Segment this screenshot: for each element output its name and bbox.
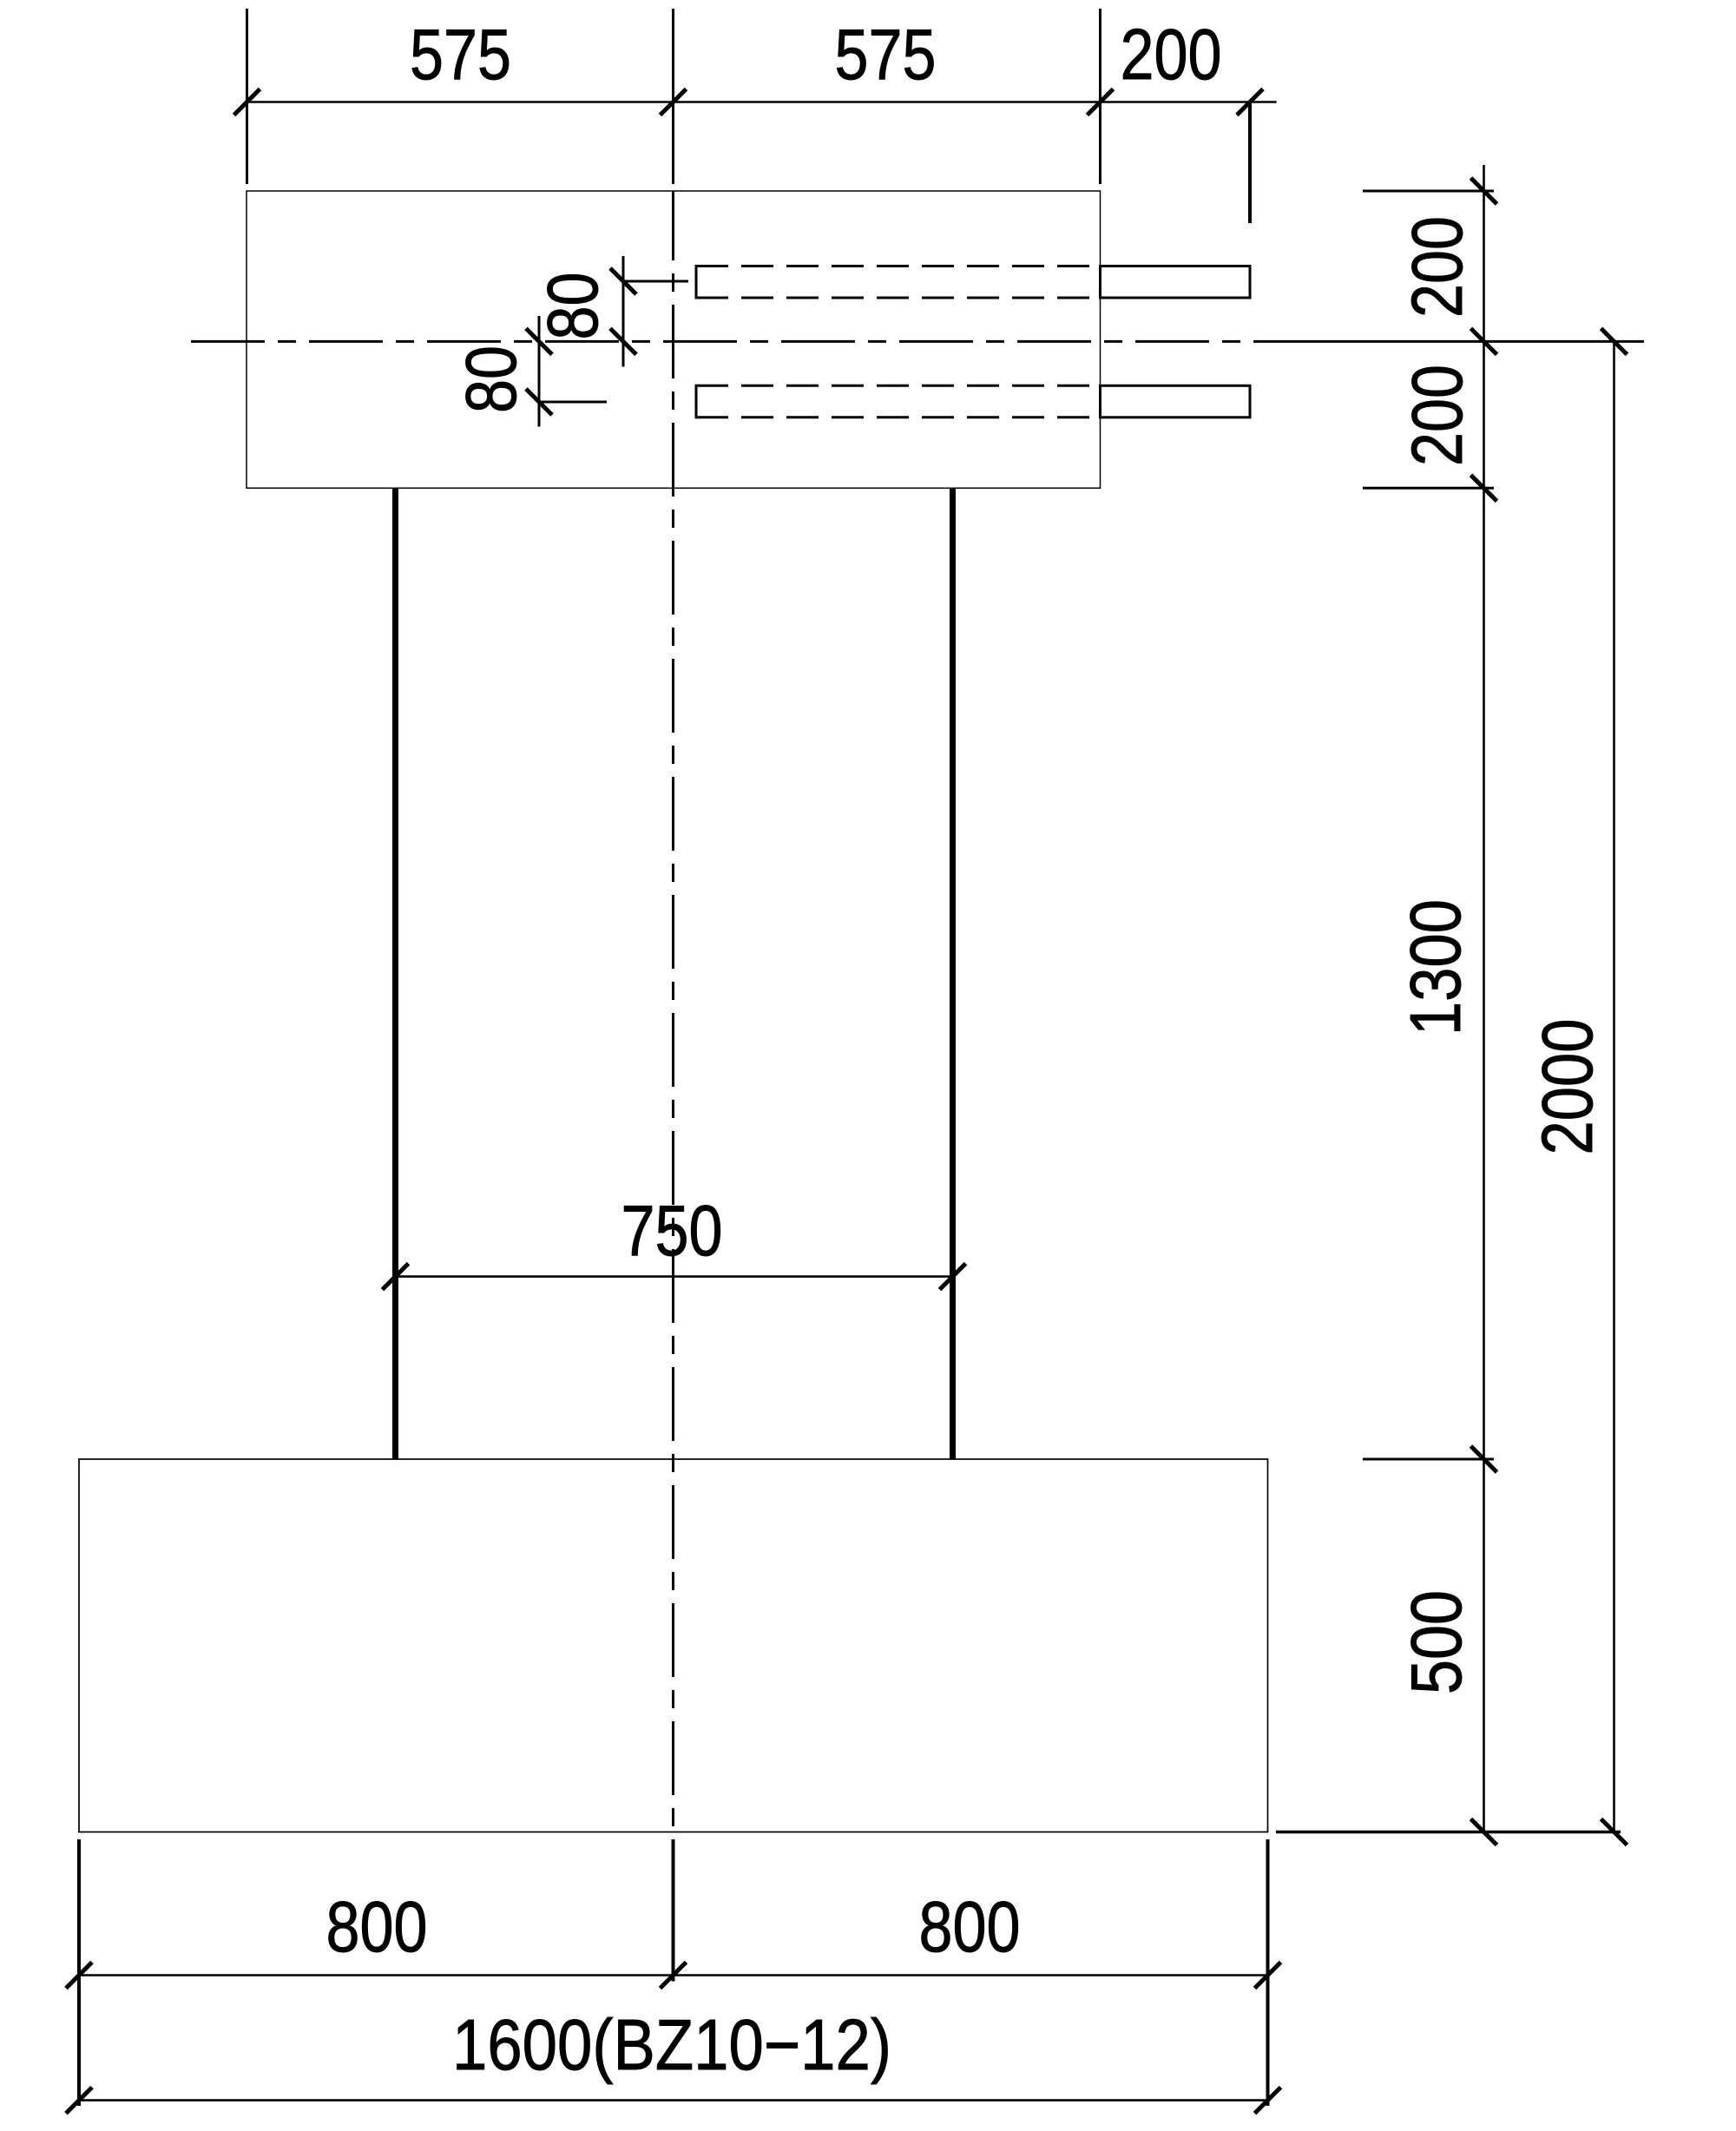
svg-text:575: 575 bbox=[410, 14, 511, 95]
svg-text:80: 80 bbox=[450, 345, 531, 413]
embedded bar 2 bottom edge hidden line bbox=[696, 416, 1101, 418]
footing outline bbox=[79, 1459, 1268, 1832]
svg-text:500: 500 bbox=[1396, 1590, 1476, 1694]
right dimension line inner ticks bbox=[1471, 178, 1497, 1845]
embedded bar 2 top edge hidden line bbox=[696, 385, 1101, 387]
svg-text:1600(BZ10−12): 1600(BZ10−12) bbox=[452, 2004, 891, 2085]
svg-text:750: 750 bbox=[621, 1190, 723, 1271]
svg-text:200: 200 bbox=[1397, 365, 1477, 466]
svg-text:2000: 2000 bbox=[1527, 1019, 1608, 1155]
dim 80 upper dimension line bbox=[622, 256, 625, 367]
vertical centerline axis bbox=[672, 191, 674, 1832]
embedded bar 1 left end bbox=[695, 265, 698, 299]
right extension stub cap top bbox=[1363, 190, 1494, 193]
top extension line left bbox=[246, 9, 248, 184]
embedded bar 1 bottom edge hidden line bbox=[696, 297, 1101, 299]
svg-text:1300: 1300 bbox=[1395, 899, 1476, 1036]
svg-text:80: 80 bbox=[532, 273, 613, 340]
svg-text:800: 800 bbox=[919, 1886, 1021, 1967]
horizontal centerline axis bbox=[191, 340, 1312, 343]
embedded bar 1 top edge hidden line bbox=[696, 265, 1101, 267]
bottom dimension 1600 ticks bbox=[66, 2088, 1281, 2114]
horizontal centerline solid right segment bbox=[1312, 340, 1644, 343]
embedded bar 2 left end bbox=[695, 385, 698, 419]
embedded bar 1 exposed end bbox=[1101, 266, 1251, 299]
embedded bar 2 exposed end bbox=[1101, 385, 1251, 418]
extension line at bar end bbox=[1248, 102, 1252, 224]
top dimension line bbox=[247, 101, 1277, 103]
column left edge bbox=[392, 488, 398, 1459]
pier cap outline bbox=[247, 191, 1101, 488]
right dimension line outer ticks bbox=[1601, 328, 1627, 1845]
bottom extension line left bbox=[77, 1839, 81, 2106]
right extension stub cap bottom bbox=[1363, 487, 1494, 490]
top extension line right bbox=[1099, 9, 1101, 184]
bottom dimension 800s ticks bbox=[66, 1963, 1281, 1989]
svg-text:200: 200 bbox=[1121, 14, 1222, 95]
bottom extension line right bbox=[1266, 1839, 1270, 2106]
dim 750 dimension line bbox=[396, 1275, 953, 1278]
right dimension line inner bbox=[1483, 165, 1485, 1832]
dim 80 lower dimension line bbox=[538, 316, 541, 427]
bottom extension line centre bbox=[672, 1839, 675, 1982]
svg-text:575: 575 bbox=[835, 14, 937, 95]
dim 80 upper extension stub bbox=[623, 280, 688, 283]
top extension line centre bbox=[672, 9, 674, 184]
dim 750 ticks bbox=[383, 1264, 966, 1290]
right extension stub footing top bbox=[1363, 1458, 1494, 1461]
bottom dimension line 800s bbox=[79, 1974, 1268, 1976]
dim 80 upper ticks bbox=[610, 268, 636, 354]
top dimension ticks bbox=[234, 89, 1264, 115]
dim 80 lower extension stub bbox=[539, 401, 607, 404]
dim 80 lower ticks bbox=[526, 328, 552, 415]
bottom dimension line 1600 bbox=[79, 2099, 1268, 2101]
right dimension line outer bbox=[1613, 340, 1615, 1832]
svg-text:200: 200 bbox=[1397, 216, 1477, 318]
ground line extension bottom right bbox=[1276, 1831, 1621, 1834]
svg-text:800: 800 bbox=[326, 1886, 428, 1967]
column right edge bbox=[950, 488, 956, 1459]
